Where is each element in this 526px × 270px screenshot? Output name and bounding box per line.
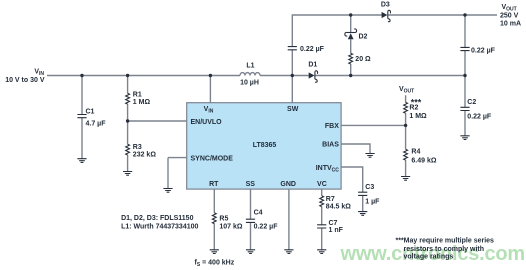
wire R2 R4 feedback column [405,95,407,176]
svg-text:6.49 kΩ: 6.49 kΩ [411,158,436,165]
svg-text:VIN: VIN [34,69,44,77]
wire EN/UVLO pin [128,120,187,122]
diode D1 [309,71,318,82]
wire GND pin [288,189,290,250]
svg-text:fS = 400 kHz: fS = 400 kHz [195,260,235,268]
svg-text:VC: VC [317,181,327,188]
diode D3 [382,10,391,21]
svg-text:SW: SW [287,106,299,113]
svg-text:R4: R4 [411,148,420,155]
svg-text:SYNC/MODE: SYNC/MODE [191,155,234,162]
svg-text:VOUT: VOUT [502,4,517,12]
wire main input rail [47,75,240,77]
junction EN/UVLO divider node [126,119,129,122]
svg-text:1 MΩ: 1 MΩ [133,99,151,106]
svg-text:D3: D3 [381,2,390,9]
svg-text:resistors to comply with: resistors to comply with [404,246,485,253]
svg-text:R2: R2 [409,104,418,111]
capacitor 0.22uF output top [460,47,469,50]
svg-text:84.5 kΩ: 84.5 kΩ [326,203,351,210]
svg-text:GND: GND [280,181,296,188]
svg-text:LT8365: LT8365 [253,142,277,149]
svg-text:FBX: FBX [325,123,339,130]
wire D2 branch [350,15,352,76]
svg-text:C3: C3 [365,184,374,191]
wire rail D1 to C2 column [315,75,465,77]
capacitor C7 [317,225,326,228]
wire SYNC/MODE pin [168,158,187,189]
ground BIAS [365,154,374,158]
svg-text:***May require multiple series: ***May require multiple series [396,238,495,245]
svg-text:EN/UVLO: EN/UVLO [191,119,223,126]
ground RT [210,250,219,254]
capacitor C4 [246,219,255,222]
svg-text:R5: R5 [219,216,228,223]
junction VOUT node at output cap [463,13,466,16]
svg-text:0.22 µF: 0.22 µF [467,113,492,120]
resistor R2 [404,102,408,113]
svg-text:1 MΩ: 1 MΩ [409,113,427,120]
svg-text:1 nF: 1 nF [329,227,344,234]
ground C1 [77,159,86,163]
wire R1 R3 branch [127,76,129,172]
svg-text:R7: R7 [326,196,335,203]
svg-text:R1: R1 [133,92,142,99]
svg-text:C1: C1 [86,109,95,116]
resistor R1 [126,93,130,104]
junction D1 cathode node at 20 ohm [349,74,352,77]
ground SS [246,250,255,254]
wire SS pin [250,189,252,250]
resistor R5 [212,213,216,224]
junction FBX divider node [404,124,407,127]
wire SW pin [291,76,293,103]
wire FBX pin [341,124,406,126]
ground C2 [460,136,469,140]
resistor R4 [404,149,408,160]
capacitor C1 [77,115,86,118]
svg-text:10 µH: 10 µH [240,80,259,87]
capacitor C2 [460,107,469,110]
ground C3 [358,212,367,216]
svg-text:L1: Wurth 74437334100: L1: Wurth 74437334100 [121,223,198,230]
wire VC pin [321,189,323,250]
ground VC [317,250,326,254]
svg-text:0.22 µF: 0.22 µF [300,46,325,53]
svg-text:R3: R3 [133,144,142,151]
svg-text:L1: L1 [246,63,254,70]
svg-text:250 V: 250 V [500,12,519,19]
wire RT pin [213,189,215,250]
diode D2 zener [345,29,357,39]
svg-text:10 mA: 10 mA [500,20,521,27]
svg-text:BIAS: BIAS [322,141,339,148]
wire BIAS pin [341,144,370,154]
svg-text:D1, D2, D3: FDLS1150: D1, D2, D3: FDLS1150 [121,215,193,222]
svg-text:20 Ω: 20 Ω [355,56,371,63]
svg-text:4.7 µF: 4.7 µF [86,121,107,128]
svg-text:D1: D1 [308,61,317,68]
resistor 20 ohm [349,53,353,64]
svg-text:RT: RT [209,181,219,188]
svg-text:232 kΩ: 232 kΩ [133,152,157,159]
svg-text:0.22 µF: 0.22 µF [254,224,279,231]
svg-text:C2: C2 [467,99,476,106]
junction top rail at D2 [349,13,352,16]
junction VIN rail at R1 [126,74,129,77]
svg-text:D2: D2 [359,33,368,40]
svg-text:voltage ratings: voltage ratings [404,254,454,261]
ground GND pin [284,250,293,254]
junction VIN rail at VIN pin [209,74,212,77]
wire INTVcc pin [341,167,363,212]
svg-text:10 V to 30 V: 10 V to 30 V [5,77,45,84]
svg-text:VOUT: VOUT [399,86,414,94]
svg-text:C7: C7 [329,220,338,227]
op-amp U1 LT8365 IC body [187,103,341,189]
wire rail L1 to D1 [260,75,309,77]
svg-text:1 µF: 1 µF [365,199,380,206]
ground R3 [123,172,132,176]
capacitor C3 [358,192,367,195]
wire C1 branch [81,76,83,159]
wire top rail [292,15,497,76]
ground SYNC/MODE [163,189,172,193]
junction D1 cathode node at C2 [463,74,466,77]
svg-text:107 kΩ: 107 kΩ [219,224,243,231]
junction SW node [291,74,294,77]
wire output column [464,15,466,136]
junction VIN rail at C1 [80,74,83,77]
wire VIN pin [209,76,211,103]
ground R4 [401,177,410,181]
resistor R7 [320,196,324,207]
capacitor 0.22uF flying [288,47,297,50]
resistor R3 [126,144,130,155]
svg-text:0.22 µF: 0.22 µF [471,47,496,54]
svg-text:C4: C4 [254,210,263,217]
inductor L1 [240,73,260,76]
svg-text:SS: SS [246,181,256,188]
